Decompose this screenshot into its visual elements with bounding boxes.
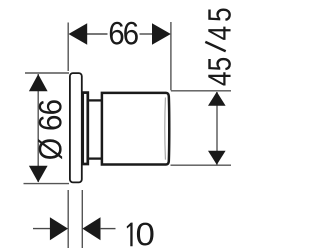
right dimension 45/45: dimension line (216, 92, 218, 165)
right dimension 45/45: label text "45 / 45" (rotated) (208, 72, 230, 85)
right dimension 45/45: bottom arrowhead (208, 151, 226, 165)
top dimension 66: dimension line left segment (87, 33, 108, 35)
top dimension 66: left arrowhead (69, 23, 88, 45)
left dimension Ø66: bottom extension line (24, 183, 70, 185)
left dimension Ø66: top extension line (25, 72, 69, 74)
right dimension 45/45: top extension line (171, 90, 231, 92)
handle end-cap seam line (164, 98, 167, 160)
neck top edge (88, 99, 102, 101)
left dimension Ø66: label text "Ø 66" (rotated) (38, 139, 62, 159)
left dimension Ø66: dimension line (37, 74, 39, 182)
bottom dimension 10: label text "10" (127, 223, 133, 247)
right dimension 45/45: bottom extension line (171, 164, 232, 166)
top dimension 66: right extension line (170, 22, 172, 90)
top dimension 66: left extension line (67, 23, 69, 72)
handle body (102, 93, 169, 165)
right dimension 45/45: top arrowhead (208, 92, 226, 106)
bottom dimension 10: left extension line (67, 190, 69, 248)
top dimension 66: dimension line right segment (140, 33, 153, 35)
left dimension Ø66: top arrowhead (29, 74, 48, 91)
bottom dimension 10: left leader line (33, 228, 51, 230)
top dimension 66: label text "66" (110, 22, 124, 45)
bottom dimension 10: left arrowhead (50, 217, 68, 240)
bottom dimension 10: right extension line (81, 190, 83, 248)
escutcheon plate (side view) (70, 73, 82, 182)
top dimension 66: right arrowhead (152, 23, 171, 45)
left dimension Ø66: bottom arrowhead (29, 166, 48, 183)
neck bottom edge (88, 157, 102, 159)
sleeve (side view) (83, 93, 88, 164)
bottom dimension 10: right leader line (100, 228, 116, 230)
bottom dimension 10: right arrowhead (82, 217, 100, 240)
